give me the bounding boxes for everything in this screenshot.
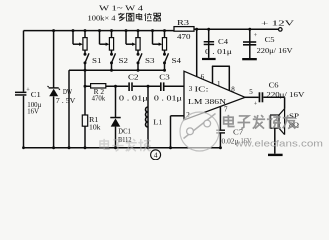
wire: oscillator mid rail segment 1 <box>85 85 128 87</box>
svg-text:L1: L1 <box>153 118 162 126</box>
svg-text:S4: S4 <box>172 56 182 65</box>
svg-text:0 . 01μ: 0 . 01μ <box>119 94 148 102</box>
label: figure number (4) <box>151 150 161 160</box>
svg-text:C7: C7 <box>233 129 244 136</box>
wire: +12V top rail left section <box>24 30 175 32</box>
label: 0.01u (C2 value) <box>119 94 148 102</box>
potentiometer W3 wiper wire and arrow <box>125 29 136 46</box>
label: pin 8 <box>231 85 235 93</box>
ground: speaker ground bar <box>268 154 283 156</box>
op-amp U1 LM386N triangle <box>184 71 245 120</box>
label: 100u (C1 value) <box>27 101 41 109</box>
label: S4 <box>172 56 182 65</box>
node: C1 branch on ground bus <box>22 146 25 149</box>
switch S1 <box>84 53 90 70</box>
svg-text:S3: S3 <box>145 56 155 65</box>
label: IC: <box>195 86 209 94</box>
svg-text:C2: C2 <box>128 74 139 82</box>
potentiometer W4 wiper wire and arrow <box>151 29 162 46</box>
svg-text:LM 386N: LM 386N <box>188 97 227 106</box>
label: 16V (C1 value) <box>27 108 39 116</box>
wire: pin 7 bypass branch <box>219 107 221 148</box>
label: 220u/16V (C5 value) <box>257 47 293 55</box>
svg-text:DW: DW <box>63 88 72 96</box>
wire: C5 branch <box>248 28 251 58</box>
label: C7 <box>233 129 244 136</box>
label: R1 <box>89 116 99 124</box>
capacitor C2 (0.01u) <box>128 82 133 91</box>
wire: C4 branch <box>207 28 210 58</box>
svg-text:0 . 01μ: 0 . 01μ <box>205 49 233 56</box>
zener diode DW (7.5V) <box>48 86 60 96</box>
svg-text:+: + <box>254 32 258 39</box>
wire: left branch vertical with C1 <box>23 31 25 148</box>
label: C1 <box>31 91 42 99</box>
svg-text:4: 4 <box>154 151 158 160</box>
wire: ground bottom bus <box>24 147 221 149</box>
potentiometer W1 body <box>83 29 87 54</box>
svg-text:8: 8 <box>231 85 235 93</box>
label: C2 <box>128 74 139 82</box>
svg-text:W 1~ W 4: W 1~ W 4 <box>99 4 143 13</box>
label: S1 <box>92 56 102 65</box>
label: 8 ohm (speaker impedance) <box>289 121 299 129</box>
potentiometer W4 body <box>162 29 166 54</box>
label: SP <box>289 112 299 120</box>
node: C7 branch at ground bus end <box>219 146 222 149</box>
svg-text:S1: S1 <box>92 56 102 65</box>
potentiometer W2 wiper wire and arrow <box>98 29 109 46</box>
wire: speaker to ground <box>274 128 276 154</box>
label: S3 <box>145 56 155 65</box>
label: 0.01u (C4 value) <box>205 49 233 56</box>
capacitor C6 (220u/16V output) <box>254 92 264 107</box>
label: pin 6 <box>201 73 205 81</box>
capacitor C3 (0.01u) <box>160 82 165 91</box>
label: pin 3 <box>189 85 193 93</box>
node: S2 junction on select bus <box>110 69 113 72</box>
resistor R1 (10k) <box>82 115 87 126</box>
ground: C4 ground bar <box>202 58 216 60</box>
node: S4 junction on select bus <box>163 69 166 72</box>
svg-text:6: 6 <box>201 73 205 81</box>
label: C3 <box>159 74 170 82</box>
wire: +12V top rail right section <box>194 28 279 30</box>
label: C4 <box>218 38 229 46</box>
svg-text:SP: SP <box>289 112 299 120</box>
label: LM 386N <box>188 97 227 106</box>
svg-text:7 . 5V: 7 . 5V <box>56 97 76 105</box>
wire: oscillator mid rail segment 2 <box>133 85 160 87</box>
wire: DC1 branch vertical <box>114 86 117 149</box>
switch S3 <box>137 53 143 70</box>
svg-text:0 . 01μ: 0 . 01μ <box>154 94 182 102</box>
node: S1 junction on select bus <box>84 69 87 72</box>
potentiometer W3 body <box>136 29 140 54</box>
label: DW <box>63 88 72 96</box>
wire: band-select bus (switch common) <box>69 69 165 71</box>
watermark: CJK text dian-zi-fa-shao-you (elecfans) <box>224 115 296 129</box>
wire: pin 2 input <box>169 116 184 149</box>
label: pin 1 <box>217 80 221 88</box>
svg-text:+ 12V: + 12V <box>261 18 295 27</box>
label: + 12V <box>261 18 295 27</box>
terminal: +12V supply terminal <box>279 28 283 32</box>
wire: pin 5 output <box>245 96 259 98</box>
label: L1 <box>153 118 162 126</box>
label: W 1~ W 4 <box>99 4 143 13</box>
svg-text:220μ/ 16V: 220μ/ 16V <box>257 47 293 55</box>
svg-text:+: + <box>26 86 30 93</box>
label: 7.5V (DW value) <box>56 97 76 105</box>
switch S2 <box>110 53 116 70</box>
speaker SP (8 ohm) <box>271 109 285 135</box>
watermark: CJK text bottom-left dian-zi-fa-shao <box>100 139 151 151</box>
label: 470 (R3 value) <box>177 33 191 41</box>
label: pin 5 <box>249 88 253 96</box>
capacitor C4 (0.01u) <box>204 41 214 45</box>
capacitor C7 (0.02u bypass) <box>216 130 225 134</box>
capacitor C1 (100u/16V electrolytic) <box>15 86 30 95</box>
svg-text:C5: C5 <box>265 36 276 44</box>
wire: output to speaker <box>263 97 284 108</box>
ground: C5 ground bar <box>242 58 257 60</box>
svg-text:ww.elecfans.com: ww.elecfans.com <box>234 139 323 149</box>
svg-text:470: 470 <box>177 33 191 41</box>
node: DC1 top junction <box>114 85 117 88</box>
svg-text:+: + <box>254 100 258 107</box>
svg-text:C4: C4 <box>218 38 229 46</box>
label: R3 <box>177 19 190 27</box>
svg-text:470k: 470k <box>92 95 106 103</box>
label: S2 <box>119 56 129 65</box>
label: 470k (R2 value) <box>92 95 106 103</box>
wire: pot1 column vertical (bus to R1 to ground) <box>84 70 87 149</box>
svg-text:S2: S2 <box>119 56 129 65</box>
potentiometer W1 wiper wire and arrow <box>72 29 83 46</box>
svg-text:R3: R3 <box>177 19 190 27</box>
svg-text:C1: C1 <box>31 91 42 99</box>
wire: band-select bus left vertical to ground <box>68 70 70 148</box>
watermark: elecfans logo circle <box>180 112 219 151</box>
node: L1 top junction <box>147 85 150 88</box>
label: pin 2 <box>186 111 190 119</box>
node: select-bus return on ground bus <box>68 146 71 149</box>
svg-text:C6: C6 <box>269 81 280 89</box>
resistor R3 <box>174 27 194 32</box>
label: 100k x 4 multiturn potentiometer <box>88 13 116 22</box>
label: C6 <box>269 81 280 89</box>
svg-text:5: 5 <box>249 88 253 96</box>
wire: oscillator mid rail segment 3 to pin 3 <box>165 85 185 87</box>
node: DW branch on ground bus <box>52 146 55 149</box>
switch S4 <box>163 53 169 70</box>
svg-text:7: 7 <box>224 105 228 113</box>
node: S3 junction on select bus <box>137 69 140 72</box>
node: R2 left junction <box>84 85 87 88</box>
label: 0.01u (C3 value) <box>154 94 182 102</box>
svg-text:IC:: IC: <box>195 86 209 94</box>
svg-text:1: 1 <box>217 80 221 88</box>
svg-text:10k: 10k <box>89 124 101 132</box>
wire: zener branch vertical <box>53 31 55 148</box>
label: CJK duo-quan-dian-wei-qi (multiturn potentiometer) <box>118 13 160 21</box>
label: C5 <box>265 36 276 44</box>
inductor L1 <box>146 86 150 149</box>
label: 220u/16V (C6 value) <box>266 91 304 99</box>
watermark: www.elecfans.com <box>234 139 323 149</box>
label: R2 <box>94 88 105 96</box>
label: DC1 <box>118 128 131 136</box>
wire: pin 6 supply <box>195 28 198 77</box>
label: B112 (DC1 type) <box>118 136 132 144</box>
label: pin 7 <box>224 105 228 113</box>
potentiometer W2 body <box>109 29 113 54</box>
wire: pin 1 to pin 8 gain loop <box>212 66 230 91</box>
svg-text:C3: C3 <box>159 74 170 82</box>
trigger diode DC1 (B112) <box>110 117 120 127</box>
node: zener branch on top rail <box>52 29 55 32</box>
resistor R2 (470k) <box>91 84 106 88</box>
label: 10k (R1 value) <box>89 124 101 132</box>
svg-text:3: 3 <box>189 85 193 93</box>
svg-text:16V: 16V <box>27 108 39 116</box>
capacitor C5 (220u/16V electrolytic) <box>243 32 258 46</box>
svg-text:R1: R1 <box>89 116 99 124</box>
svg-text:DC1: DC1 <box>118 128 131 136</box>
label: 0.02u (C7 value) <box>222 138 252 145</box>
svg-text:100k× 4: 100k× 4 <box>88 13 116 22</box>
